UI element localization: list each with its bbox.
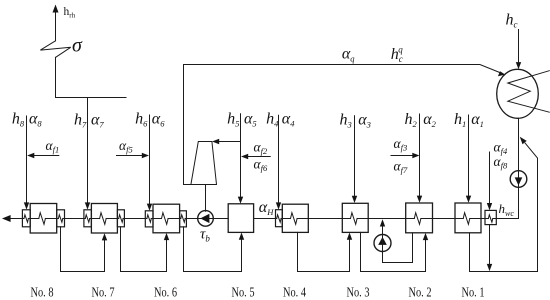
heater No.2 box — [406, 203, 433, 233]
svg-text:hcq: hcq — [391, 45, 404, 65]
wire: drain pump up to main line — [382, 226, 384, 263]
deaerator No.5 box — [228, 204, 253, 233]
wire: main feedwater line segments — [10, 218, 24, 220]
heater No.6 right flange — [180, 211, 187, 227]
heater No.6 right flange zigzag — [181, 215, 185, 222]
condensate pump triangle (down) — [515, 177, 523, 185]
drain pump circle — [374, 235, 391, 252]
arrow: drain up into No.2 — [423, 233, 428, 240]
arrow: pumped drain into main line — [380, 219, 385, 226]
svg-text:αf7: αf7 — [394, 159, 408, 176]
arrow: alpha_q into condenser — [498, 71, 505, 76]
wire: steam line h8 — [26, 116, 28, 203]
condenser coil zigzag — [508, 71, 550, 113]
heater No.6 left flange — [145, 211, 153, 227]
wire: steam line h1 — [468, 115, 470, 196]
wire: drain No.8 to No.7 — [61, 227, 105, 272]
svg-text:h5: h5 — [227, 111, 239, 129]
svg-text:No. 4: No. 4 — [283, 285, 306, 300]
heater No.4 flange zigzag — [277, 215, 281, 222]
arrow: h6 into heater 6 flange — [147, 204, 152, 211]
arrow: h4 into heater 4 flange — [276, 202, 281, 209]
heater No.8 right flange — [57, 210, 65, 227]
wire: drain No.6 to No.5 — [184, 227, 242, 272]
arrow: h2 into heater 2 — [417, 196, 422, 203]
wire: below break down to header — [55, 57, 57, 97]
arrow: alpha_f3/f7 right arrowhead into h2 line — [412, 153, 419, 158]
heater No.7 main box — [91, 204, 117, 234]
arrow: alpha_f5 right arrowhead — [142, 153, 149, 158]
arrow: h_c down into condenser — [516, 62, 521, 69]
arrow: h8 into heater 8 flange — [24, 202, 29, 209]
heater No.1 box — [455, 203, 481, 233]
heater No.2 zigzag — [414, 213, 421, 225]
wire: reheat line h_rh vertical — [55, 11, 57, 41]
wire: steam line h4 — [278, 115, 280, 203]
line-break symbol sigma (lightning) — [40, 41, 70, 58]
wire: drain No.4 to No.3 — [298, 232, 350, 271]
wire: h_c line into condenser top — [518, 30, 520, 64]
arrow: alpha_f1 left arrowhead — [27, 153, 34, 158]
wire: turbine shaft to pump — [205, 185, 207, 212]
heater No.7 zigzag — [100, 213, 107, 225]
h_wc box zigzag — [488, 215, 492, 222]
wire: drain No.3 to No.2 — [361, 232, 426, 271]
svg-text:No. 2: No. 2 — [409, 285, 432, 300]
wire: steam line h6 — [149, 115, 151, 205]
svg-text:No. 1: No. 1 — [462, 285, 485, 300]
wire: alpha_f4/f8 line lower — [489, 225, 491, 265]
heater No.1 zigzag — [463, 213, 470, 225]
svg-text:α3: α3 — [358, 112, 371, 130]
svg-text:αf3: αf3 — [394, 136, 408, 153]
svg-text:αf5: αf5 — [119, 138, 133, 155]
heater No.8 right flange zigzag — [58, 215, 62, 222]
arrow: h5 into deaerator No.5 — [238, 197, 243, 204]
svg-text:αf6: αf6 — [254, 157, 268, 174]
condensate pump circle — [510, 171, 527, 188]
svg-text:α7: α7 — [91, 112, 104, 130]
arrow: alpha_f2/f6 left arrowhead into h5 line — [241, 154, 248, 159]
wire: steam line h5 — [240, 114, 242, 198]
heater No.3 zigzag — [351, 213, 358, 225]
svg-text:αf8: αf8 — [494, 154, 508, 171]
svg-text:No. 8: No. 8 — [31, 285, 54, 300]
heater No.6 left flange zigzag — [147, 215, 151, 222]
svg-text:h2: h2 — [405, 111, 418, 129]
h_wc small box — [485, 210, 496, 224]
heater No.3 box — [342, 203, 368, 232]
svg-text:α8: α8 — [29, 111, 42, 129]
svg-text:α5: α5 — [244, 111, 257, 129]
pump tau_b circle — [198, 211, 214, 227]
svg-text:h8: h8 — [12, 111, 25, 129]
heater No.7 left flange zigzag — [85, 215, 89, 222]
svg-text:hrh: hrh — [64, 6, 76, 19]
svg-text:αH: αH — [259, 199, 274, 217]
wire: alpha_f5 arrow line — [117, 155, 144, 157]
svg-text:α4: α4 — [282, 111, 295, 129]
arrow: h7 into heater 7 flange — [85, 202, 90, 209]
arrow: drain return into condensate line — [520, 137, 527, 145]
wire: alpha_f1 arrow line — [33, 155, 59, 157]
wire: drain No.7 to No.6 — [121, 227, 167, 272]
wire: steam line h2 — [419, 114, 421, 196]
wire: drain No.2 down to drain pump — [383, 233, 413, 263]
arrow: h1 into heater 1 — [466, 196, 471, 203]
heater No.8 left flange — [22, 210, 30, 227]
wire: reheat header horizontal — [56, 97, 127, 99]
wire: drain No.1 to collector and riser to condensate line — [470, 143, 538, 271]
arrow: drain up into No.7 — [102, 233, 107, 240]
svg-text:h1: h1 — [454, 111, 466, 129]
svg-text:h3: h3 — [340, 112, 352, 130]
arrow: h_rh up arrowhead — [53, 5, 59, 13]
svg-text:hc: hc — [506, 12, 518, 30]
turbine tau_b (trapezoid) — [191, 142, 217, 185]
svg-text:αq: αq — [342, 46, 355, 64]
arrow: main feedwater line exit (left) — [2, 215, 11, 222]
svg-text:α2: α2 — [423, 111, 436, 129]
pump tau_b triangle — [200, 214, 209, 223]
heater No.7 right flange zigzag — [119, 215, 123, 222]
wire: turbine inlet from h5 line — [218, 141, 241, 143]
heater No.6 zigzag — [162, 213, 169, 225]
svg-text:α6: α6 — [152, 111, 165, 129]
heater No.7 left flange — [84, 210, 92, 227]
wire: alpha_f4/f8 line upper — [489, 152, 491, 204]
svg-text:σ: σ — [72, 35, 83, 57]
arrow: drain up into No.6 — [164, 233, 169, 240]
arrow: h3 into heater 3 — [352, 196, 357, 203]
condenser circle — [497, 69, 539, 118]
wire: alpha_f3/f7 arrow line — [391, 155, 414, 157]
svg-text:h6: h6 — [135, 111, 148, 129]
svg-text:τb: τb — [200, 227, 210, 244]
svg-text:No. 7: No. 7 — [92, 285, 115, 300]
heater No.8 left flange zigzag — [24, 215, 28, 222]
svg-text:αf1: αf1 — [46, 138, 60, 155]
heater No.8 zigzag — [39, 213, 46, 225]
wire: steam line h3 — [354, 116, 356, 197]
drain pump triangle (up) — [378, 237, 387, 245]
heater No.7 right flange — [117, 210, 124, 227]
heater No.8 main box — [30, 204, 57, 234]
svg-text:No. 3: No. 3 — [347, 285, 370, 300]
wire: steam line h7 — [87, 98, 89, 204]
svg-text:hwc: hwc — [499, 201, 515, 218]
heater No.4 zigzag — [291, 213, 298, 225]
svg-text:No. 6: No. 6 — [154, 285, 177, 300]
arrow: down into drain collector — [487, 264, 492, 271]
arrow: drain up into No.3 — [347, 233, 352, 240]
wire: condensate from condenser down — [518, 118, 520, 218]
svg-text:No. 5: No. 5 — [232, 285, 255, 300]
arrow: into turbine top right — [212, 139, 219, 144]
wire: turbine exhaust riser alpha_q — [184, 65, 191, 185]
svg-text:h7: h7 — [74, 112, 87, 130]
heater No.4 main box — [282, 204, 308, 232]
svg-text:αf2: αf2 — [254, 140, 268, 157]
svg-text:h4: h4 — [266, 111, 279, 129]
heater No.4 left flange — [276, 210, 283, 227]
wire: alpha_f2/f6 arrow line — [246, 156, 270, 158]
arrow: drain up into No.5 — [239, 233, 244, 240]
arrow: into h_wc box — [487, 203, 492, 210]
svg-text:α1: α1 — [471, 111, 484, 129]
wire: alpha_q header to condenser — [184, 65, 501, 73]
heater No.6 main box — [153, 204, 180, 233]
